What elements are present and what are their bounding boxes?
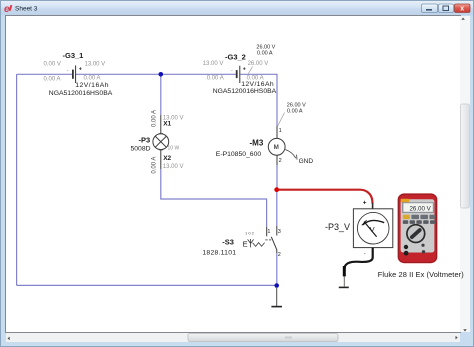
svg-text:13.00 V: 13.00 V xyxy=(85,62,106,68)
svg-text:1: 1 xyxy=(267,229,270,235)
svg-text:-M3: -M3 xyxy=(250,138,264,147)
switch S3 pin 1 lead xyxy=(266,227,268,236)
svg-text:-G3_1: -G3_1 xyxy=(63,51,84,60)
svg-text:-G3_2: -G3_2 xyxy=(225,52,246,61)
svg-text:+: + xyxy=(243,67,246,73)
svg-text:NGA5120016HS0BA: NGA5120016HS0BA xyxy=(49,90,113,97)
ground symbol at node C xyxy=(271,288,282,307)
svg-text:-: - xyxy=(364,251,366,257)
svg-text:X1: X1 xyxy=(163,121,171,128)
battery G3_2 xyxy=(203,44,277,95)
motor M3 xyxy=(216,102,314,165)
svg-text:1: 1 xyxy=(279,128,282,134)
wire bottom rail horizontal xyxy=(17,284,277,286)
svg-text:26.00 V: 26.00 V xyxy=(409,206,431,213)
svg-text:x: x xyxy=(460,6,464,13)
switch S3 actuator dashed link xyxy=(265,239,267,241)
GND net leader curve xyxy=(285,150,296,159)
svg-text:0.00 V: 0.00 V xyxy=(44,62,61,68)
wire from motor M3 pin 2 down to node B xyxy=(276,165,278,190)
svg-text:0.00 A: 0.00 A xyxy=(287,108,303,114)
svg-text:-P3_V: -P3_V xyxy=(325,222,350,232)
battery G3_1 xyxy=(44,51,113,97)
svg-text:12V/16Ah: 12V/16Ah xyxy=(241,81,274,88)
motor M3 symbol circle xyxy=(268,138,285,155)
svg-text:3: 3 xyxy=(278,229,281,235)
svg-text:-P3: -P3 xyxy=(139,136,151,145)
svg-text:2: 2 xyxy=(278,252,281,258)
wire measurement lead (red) from node B to voltmeter P3_V plus terminal xyxy=(279,190,373,204)
motor M3 pin 1 lead xyxy=(276,126,278,139)
wire from battery G3_2 to top-right corner down to motor M3 pin 1 xyxy=(240,74,277,126)
svg-text:V: V xyxy=(370,225,375,234)
svg-text:Sheet 3: Sheet 3 xyxy=(15,6,38,13)
wire left rail vertical xyxy=(16,74,18,285)
svg-text:M: M xyxy=(274,144,279,151)
svg-text:0.00 A: 0.00 A xyxy=(152,157,158,174)
lamp P3 symbol circle with cross xyxy=(153,134,169,150)
wire measurement lead (black) from voltmeter P3_V minus terminal to probe ground xyxy=(344,248,372,271)
switch S3 xyxy=(202,226,280,258)
svg-text:26.00 V: 26.00 V xyxy=(248,61,269,67)
svg-text:13.00 V: 13.00 V xyxy=(203,61,224,67)
voltmeter P3_V xyxy=(325,200,393,258)
leader line to motor feed annotation xyxy=(278,113,285,127)
lamp P3 pin X1 connection tick xyxy=(159,133,163,135)
lamp P3 xyxy=(131,110,184,174)
svg-text:12V/16Ah: 12V/16Ah xyxy=(75,82,109,89)
svg-text:+: + xyxy=(363,200,367,207)
wire from lamp P3 down and right to switch S3 pin 1 xyxy=(161,169,267,227)
multimeter instrument graphic (Fluke 28 II Ex) xyxy=(398,193,438,263)
switch S3 pin 2 lead xyxy=(276,249,278,253)
lamp P3 pin X2 lead xyxy=(160,150,162,169)
svg-text:13.00 V: 13.00 V xyxy=(163,164,184,170)
svg-text:0.00 A: 0.00 A xyxy=(152,110,158,127)
svg-text:0.00 A: 0.00 A xyxy=(257,51,273,57)
wire from switch S3 pin 2 down to node C xyxy=(276,253,278,285)
switch S3 manual actuator symbol xyxy=(248,239,254,247)
svg-text:0.00 A: 0.00 A xyxy=(84,76,101,82)
motor M3 pin 2 lead xyxy=(276,155,278,165)
wire lamp branch from node A down to lamp P3 xyxy=(160,74,162,115)
svg-text:5008D: 5008D xyxy=(131,146,151,153)
wire top-left segment from left rail to battery G3_1 negative plate xyxy=(17,73,72,75)
svg-text:E: E xyxy=(243,239,248,248)
svg-text:X2: X2 xyxy=(163,155,171,162)
wire from node B down to switch S3 pin 3 xyxy=(276,190,278,226)
svg-text:0.00 A: 0.00 A xyxy=(207,75,224,81)
svg-text:13.00 V: 13.00 V xyxy=(163,115,184,121)
svg-text:0.00 A: 0.00 A xyxy=(44,77,61,83)
svg-text:+: + xyxy=(79,67,82,73)
switch S3 contact lever xyxy=(271,237,276,250)
svg-text:GND: GND xyxy=(299,158,314,165)
svg-text:2: 2 xyxy=(279,158,282,164)
svg-text:Fluke 28 II Ex (Voltmeter): Fluke 28 II Ex (Voltmeter) xyxy=(378,270,464,279)
wire between battery G3_1 and battery G3_2 xyxy=(76,73,236,75)
svg-text:1828.1101: 1828.1101 xyxy=(202,250,236,257)
lamp P3 pin X1 lead xyxy=(160,115,162,134)
svg-text:1 0 2: 1 0 2 xyxy=(245,231,255,236)
switch S3 actuator spring zigzag xyxy=(253,243,265,247)
svg-text:26.00 V: 26.00 V xyxy=(256,44,275,50)
svg-text:E-P10850_600: E-P10850_600 xyxy=(216,151,262,158)
svg-text:NGA5120016HS0BA: NGA5120016HS0BA xyxy=(213,88,277,95)
node B junction (voltmeter tap, highlighted red) xyxy=(274,187,279,192)
svg-text:10 W: 10 W xyxy=(168,146,180,152)
svg-text:-S3: -S3 xyxy=(222,237,234,246)
ground symbol at probe xyxy=(339,286,349,288)
node A junction (lamp branch tap) xyxy=(159,72,164,77)
node C junction (bottom rail / ground tap) xyxy=(274,283,279,288)
switch S3 pin 3 lead xyxy=(276,226,278,236)
lamp P3 pin X2 connection tick xyxy=(159,149,163,151)
leader line to top wire annotation xyxy=(248,67,252,74)
